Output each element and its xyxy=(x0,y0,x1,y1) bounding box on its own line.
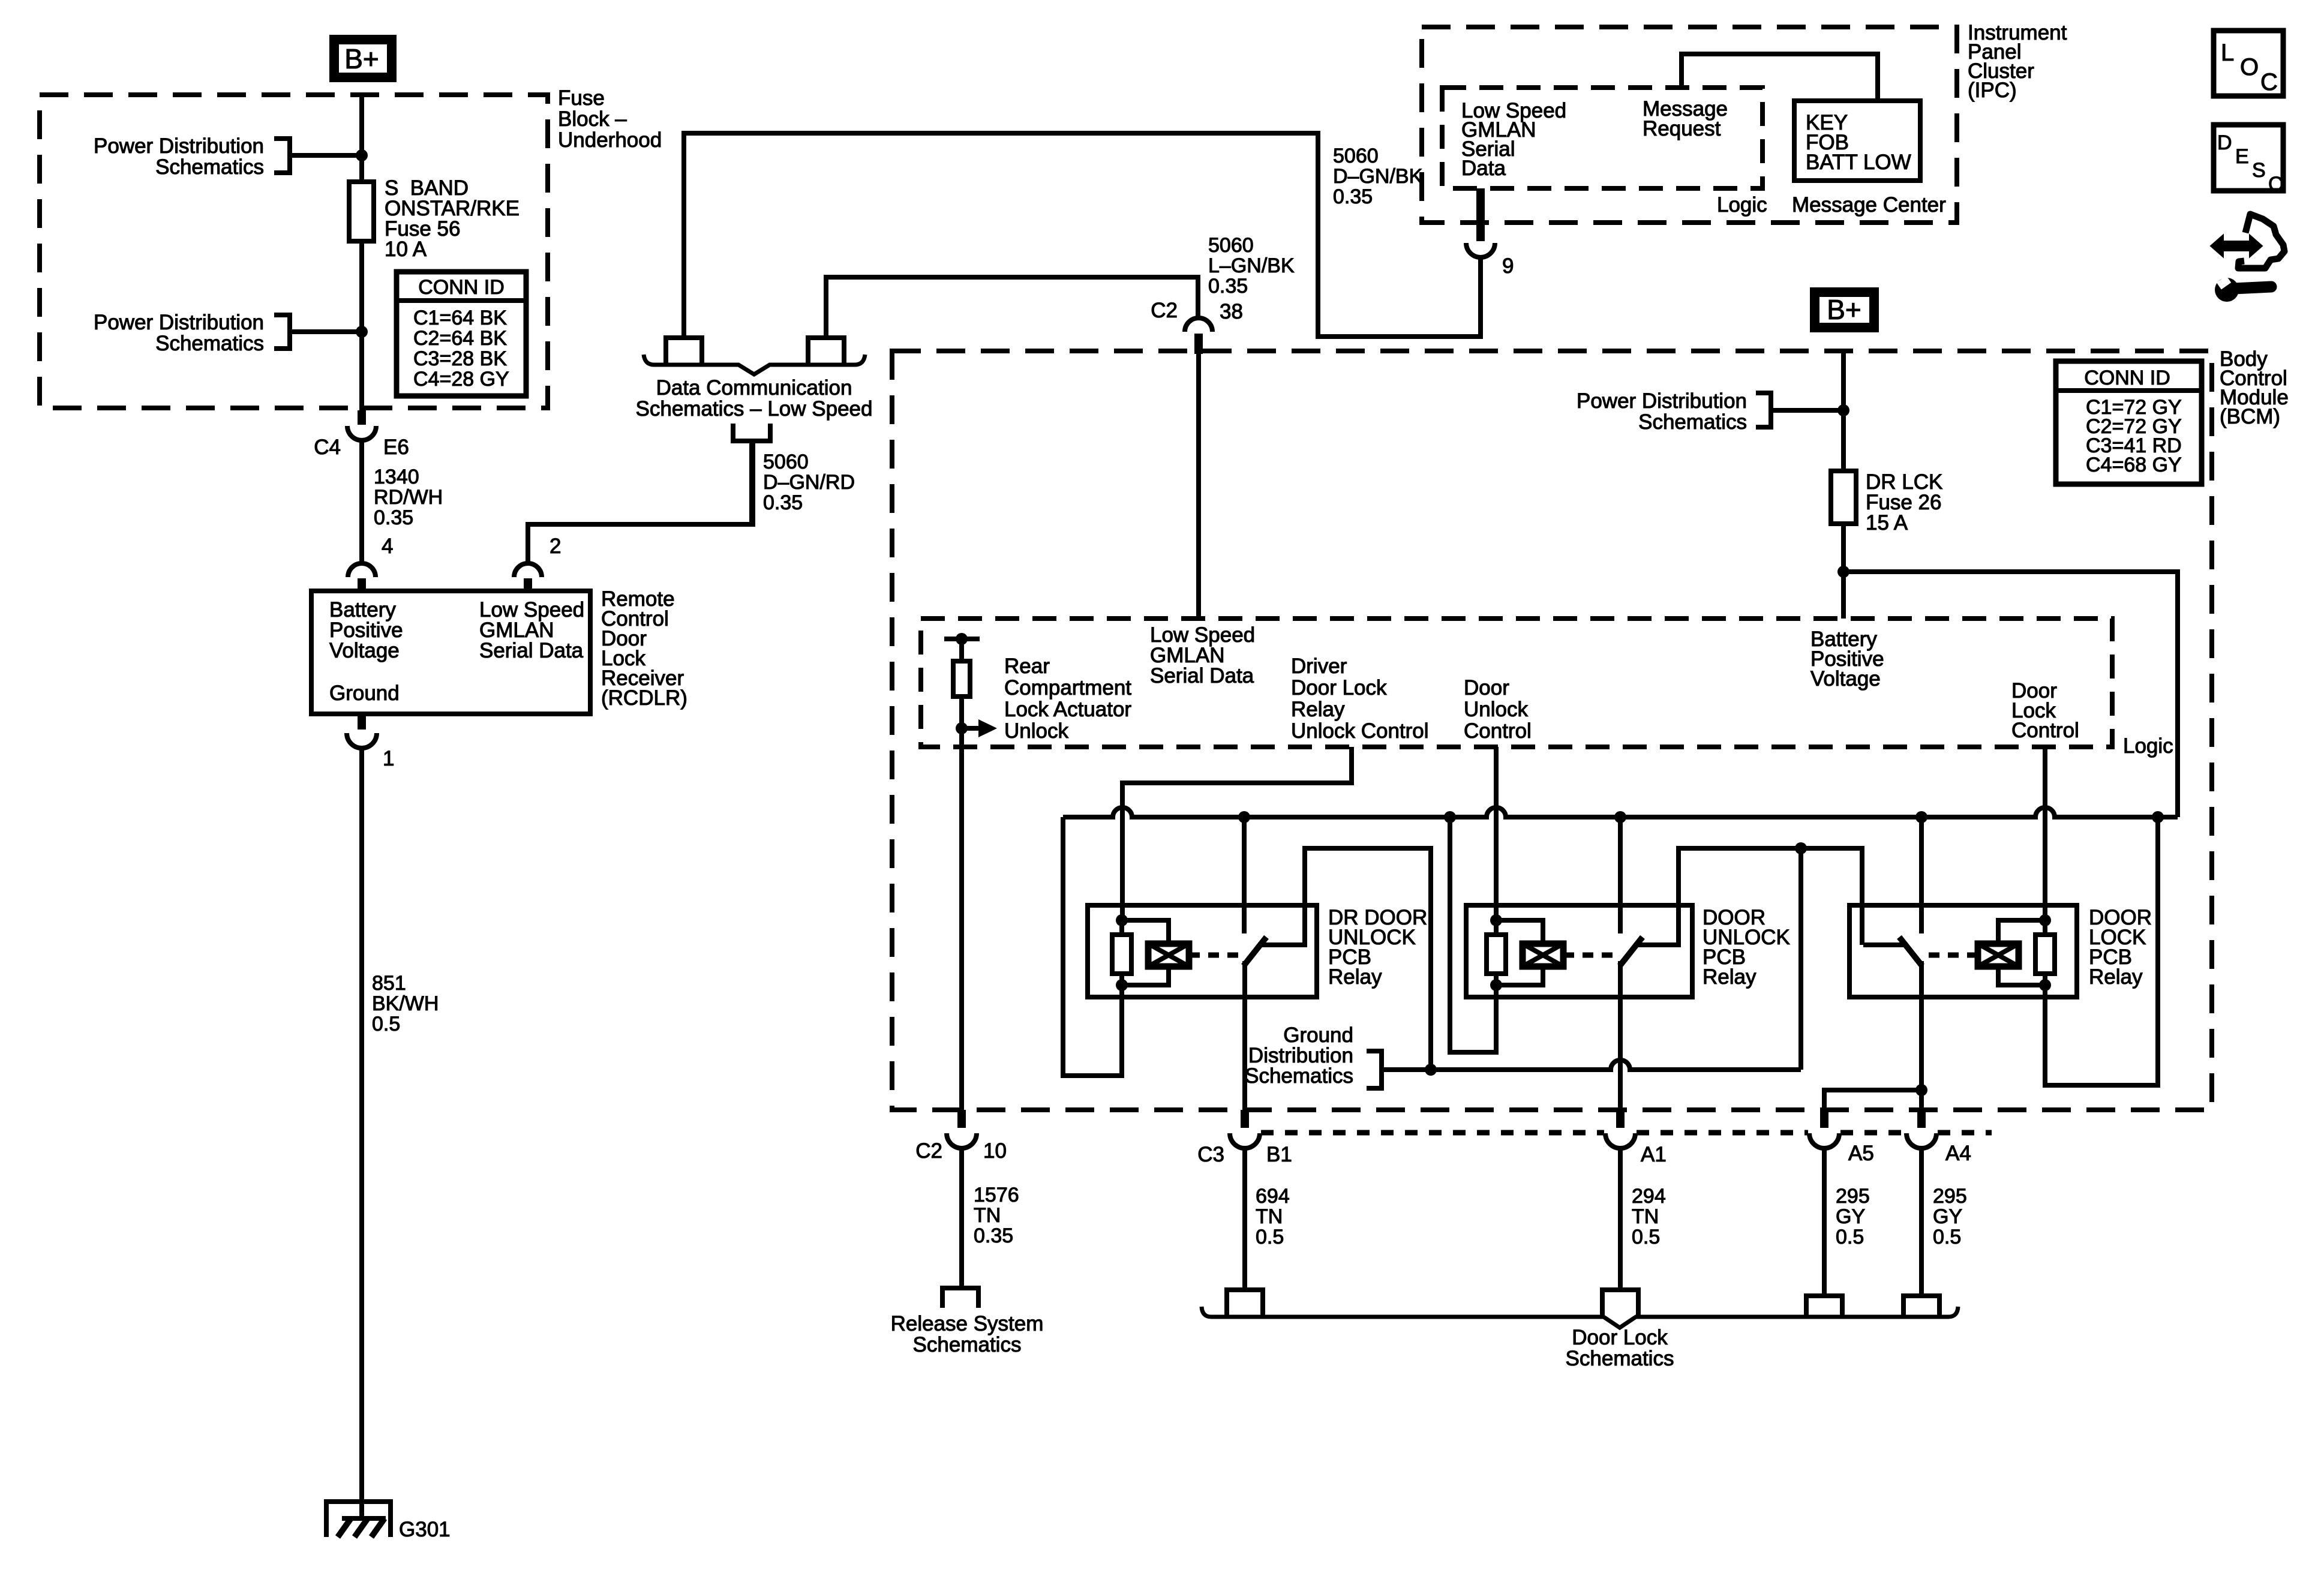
svg-text:0.5: 0.5 xyxy=(1933,1226,1961,1248)
svg-text:Release System: Release System xyxy=(891,1312,1044,1335)
wire 5060 D-GN/RD from data link to RCDLR pin 2 xyxy=(528,442,753,564)
svg-text:RD/WH: RD/WH xyxy=(374,486,443,509)
svg-text:L–GN/BK: L–GN/BK xyxy=(1208,254,1295,277)
wire bracket to main feed (lower) xyxy=(290,329,362,334)
wire relay K1 switch to connector B1 xyxy=(1242,961,1247,1117)
svg-text:15 A: 15 A xyxy=(1866,511,1908,535)
relay switch common riser from bus xyxy=(1242,817,1247,933)
svg-text:4: 4 xyxy=(382,535,393,558)
wire rear compartment unlock down to connector C2-10 xyxy=(959,728,964,1117)
fuse DR LCK Fuse 26 xyxy=(1831,471,1856,524)
CONN ID table (fuse block) xyxy=(397,272,526,396)
node junction to power distribution (upper) xyxy=(356,149,368,161)
wire 294 TN to door lock schematics xyxy=(1618,1148,1623,1290)
connector A1 xyxy=(1616,1110,1625,1128)
svg-text:Block –: Block – xyxy=(558,107,627,131)
svg-text:Data: Data xyxy=(1461,157,1506,180)
wire 851 BK/WH to ground G301 xyxy=(359,747,364,1520)
wire data link B (5060 L-GN/BK) staple to BCM C2-38 xyxy=(808,338,844,365)
bus junction dot relay K3 switch xyxy=(1915,811,1927,823)
B+ battery feed symbol (fuse block) xyxy=(334,40,392,77)
svg-text:851: 851 xyxy=(372,972,406,995)
svg-text:Underhood: Underhood xyxy=(558,128,662,152)
svg-text:L: L xyxy=(2221,40,2234,66)
relay supply bus B+ with crossover hops xyxy=(1063,807,2178,817)
relay K2 coil return loop to bus xyxy=(1450,817,1496,1052)
relay switch common riser from bus xyxy=(1618,817,1623,933)
wire 295 GY (A4) xyxy=(1919,1148,1924,1296)
svg-text:Serial Data: Serial Data xyxy=(479,639,584,662)
svg-text:Control: Control xyxy=(1464,719,1532,743)
connector pin 2 of RCDLR xyxy=(514,563,542,577)
svg-text:1340: 1340 xyxy=(374,466,419,488)
reference bracket power distribution schematics (upper) xyxy=(274,139,290,173)
svg-text:TN: TN xyxy=(1632,1205,1659,1228)
svg-text:Logic: Logic xyxy=(2123,734,2173,758)
IPC connector pin 9 xyxy=(1476,188,1485,241)
svg-text:Unlock: Unlock xyxy=(1464,698,1528,721)
junction dot unlock output xyxy=(956,722,968,734)
svg-text:TN: TN xyxy=(974,1204,1001,1227)
wire door unlock control to relay K2 coil xyxy=(1494,747,1499,920)
relay coil center wire xyxy=(1494,920,1499,985)
svg-text:295: 295 xyxy=(1836,1185,1870,1208)
svg-text:D–GN/RD: D–GN/RD xyxy=(763,471,855,494)
svg-text:0.5: 0.5 xyxy=(1632,1226,1660,1248)
svg-text:C1=64 BK: C1=64 BK xyxy=(413,307,507,329)
relay switch blade xyxy=(1899,937,1922,966)
wire from data brace tap down to RCDLR pin2 run xyxy=(749,441,754,524)
svg-text:10: 10 xyxy=(983,1139,1007,1163)
svg-text:Schematics: Schematics xyxy=(155,332,264,355)
svg-text:(IPC): (IPC) xyxy=(1968,79,2017,102)
relay mechanical link stub and dashes xyxy=(1563,953,1574,958)
tap connector below data brace xyxy=(733,424,770,441)
BCM logic dashed box xyxy=(921,619,2112,747)
svg-text:Door Lock: Door Lock xyxy=(1291,676,1387,700)
junction dot fuse output to relay bus xyxy=(1837,566,1849,578)
connector C2 pin 10 (rear compartment) xyxy=(957,1110,966,1128)
staple A4 to brace xyxy=(1903,1296,1939,1316)
svg-text:5060: 5060 xyxy=(1208,234,1254,257)
svg-text:S: S xyxy=(2252,159,2266,182)
connector A4 xyxy=(1917,1110,1926,1128)
svg-text:G301: G301 xyxy=(399,1518,451,1541)
svg-text:Relay: Relay xyxy=(2089,965,2143,989)
svg-text:Schematics: Schematics xyxy=(155,155,264,179)
wire driver door lock relay unlock control to relay K1 coil xyxy=(1122,747,1352,920)
connector staple release system xyxy=(942,1288,978,1308)
instrument panel cluster dashed box xyxy=(1422,27,1957,223)
svg-text:Ground: Ground xyxy=(329,682,400,705)
arrow unlock direction xyxy=(962,726,978,731)
svg-text:C: C xyxy=(2268,173,2283,196)
svg-text:Door Lock: Door Lock xyxy=(1572,1326,1668,1349)
relay K1 coil return loop to bus xyxy=(1063,817,1122,1076)
svg-text:Relay: Relay xyxy=(1328,965,1382,989)
node junction to power distribution (lower) xyxy=(356,326,368,338)
svg-text:0.35: 0.35 xyxy=(1333,185,1373,208)
svg-text:BK/WH: BK/WH xyxy=(372,992,439,1015)
wire 295 GY (A5) xyxy=(1822,1148,1827,1296)
svg-text:Unlock: Unlock xyxy=(1004,719,1068,743)
junction dot A5 jumper xyxy=(1915,1084,1927,1096)
relay coil loop wire xyxy=(1122,920,1169,985)
wire message request to message center xyxy=(1682,54,1878,100)
svg-text:0.5: 0.5 xyxy=(1836,1226,1864,1248)
connector C3 pin B1 xyxy=(1241,1110,1249,1128)
svg-text:C3=28 BK: C3=28 BK xyxy=(413,347,507,370)
relay mechanical link stub and dashes xyxy=(1967,953,1978,958)
ground distribution line with hop over A1 wire xyxy=(1382,1060,1801,1070)
DESC legend box xyxy=(2214,125,2283,191)
svg-text:A5: A5 xyxy=(1848,1142,1874,1165)
wire relay K2 switch to connector A1 xyxy=(1618,961,1623,1117)
relay coil resistor xyxy=(1487,935,1506,974)
svg-text:38: 38 xyxy=(1220,300,1243,323)
reference bracket ground distribution schematics xyxy=(1367,1051,1382,1088)
relay K3 coil return loop to bus xyxy=(2045,817,2158,1085)
svg-text:0.35: 0.35 xyxy=(763,491,803,514)
svg-text:B1: B1 xyxy=(1266,1143,1292,1166)
svg-text:Power Distribution: Power Distribution xyxy=(94,311,264,334)
pin 1 connector of RCDLR (ground) xyxy=(358,714,366,730)
wire data link A (5060 D-GN/BK) staple to IPC xyxy=(666,338,702,365)
fuse block - underhood dashed box xyxy=(40,95,548,408)
IPC logic inner dashed box xyxy=(1442,88,1762,188)
brace data communication schematics - low speed xyxy=(644,355,865,374)
svg-text:2: 2 xyxy=(550,535,561,558)
svg-text:Power Distribution: Power Distribution xyxy=(1577,389,1747,413)
relay coil resistor xyxy=(1112,935,1131,974)
relay coil resistor xyxy=(2035,935,2055,974)
relay coil inductor X-box xyxy=(1148,944,1189,966)
svg-text:GY: GY xyxy=(1836,1205,1865,1228)
ground symbol G301 xyxy=(326,1502,391,1537)
svg-text:GY: GY xyxy=(1933,1205,1962,1228)
connector C2 pin 38 into BCM xyxy=(1185,318,1212,332)
svg-text:C4: C4 xyxy=(314,436,341,459)
svg-text:B+: B+ xyxy=(1827,294,1861,325)
svg-text:Message Center: Message Center xyxy=(1792,193,1946,217)
svg-text:Request: Request xyxy=(1643,117,1721,140)
svg-text:A4: A4 xyxy=(1945,1142,1971,1165)
svg-text:Driver: Driver xyxy=(1291,655,1347,678)
B+ battery feed symbol (BCM) xyxy=(1815,292,1874,328)
svg-text:Schematics: Schematics xyxy=(1638,410,1747,434)
svg-text:Compartment: Compartment xyxy=(1004,676,1131,700)
CONN ID table (BCM) xyxy=(2056,361,2202,484)
svg-text:Schematics: Schematics xyxy=(1245,1064,1353,1088)
relay coil top junction xyxy=(1116,914,1128,926)
svg-text:D: D xyxy=(2217,131,2232,154)
rear compartment lock actuator terminal bar xyxy=(944,637,980,641)
svg-text:TN: TN xyxy=(1256,1205,1283,1228)
wire 1576 TN to release system xyxy=(959,1148,964,1288)
svg-text:10 A: 10 A xyxy=(385,238,427,261)
jumper wire to connector A5 xyxy=(1824,1090,1921,1117)
svg-text:0.5: 0.5 xyxy=(372,1013,400,1035)
connector pin 4 of RCDLR xyxy=(348,563,376,577)
svg-text:Schematics – Low Speed: Schematics – Low Speed xyxy=(636,397,873,421)
wire 1340 RD/WH to RCDLR pin 4 xyxy=(359,440,364,564)
svg-text:1: 1 xyxy=(383,747,394,770)
bus junction dot relay K2 switch xyxy=(1614,811,1626,823)
svg-text:5060: 5060 xyxy=(763,451,809,473)
staple A1 to brace xyxy=(1602,1290,1638,1316)
svg-text:Power Distribution: Power Distribution xyxy=(94,134,264,158)
svg-text:Serial Data: Serial Data xyxy=(1150,664,1254,688)
svg-text:694: 694 xyxy=(1256,1185,1290,1208)
svg-text:C4=28 GY: C4=28 GY xyxy=(413,368,509,391)
relay coil center wire xyxy=(1119,920,1124,985)
svg-text:295: 295 xyxy=(1933,1185,1967,1208)
svg-text:(RCDLR): (RCDLR) xyxy=(601,686,687,710)
junction dot ground riser on output line xyxy=(1795,842,1807,854)
brace door lock schematics xyxy=(1202,1307,1958,1328)
svg-text:BATT LOW: BATT LOW xyxy=(1806,151,1911,174)
wire resistor to unlock node xyxy=(959,697,964,728)
svg-text:O: O xyxy=(2240,54,2259,80)
staple B1 to brace xyxy=(1227,1290,1263,1316)
wire B+ down to logic (battery positive voltage) xyxy=(1841,349,1846,619)
svg-text:Fuse: Fuse xyxy=(558,86,605,110)
relay switch throw contact xyxy=(1634,942,1679,947)
svg-text:0.35: 0.35 xyxy=(974,1224,1013,1247)
svg-text:C2=64 BK: C2=64 BK xyxy=(413,327,507,350)
svg-text:Schematics: Schematics xyxy=(1566,1347,1674,1370)
svg-text:C3: C3 xyxy=(1197,1143,1224,1166)
relay coil bottom junction xyxy=(2039,979,2051,991)
bus junction dot relay K3 coil return xyxy=(2152,811,2164,823)
svg-text:0.35: 0.35 xyxy=(1208,275,1248,298)
relay K2 switch output riser loop xyxy=(1634,848,1862,945)
svg-text:A1: A1 xyxy=(1641,1143,1667,1166)
svg-text:(BCM): (BCM) xyxy=(2220,405,2280,428)
wire door lock control to relay K3 coil xyxy=(2043,747,2047,920)
fuse F56 S BAND ONSTAR/RKE xyxy=(349,182,374,241)
relay switch blade xyxy=(1620,937,1643,966)
RCDLR module box xyxy=(311,591,590,714)
relay coil center wire xyxy=(2043,920,2047,985)
svg-text:Relay: Relay xyxy=(1703,965,1756,989)
connector A5 xyxy=(1820,1110,1828,1128)
wire bracket to B+ feed xyxy=(1771,408,1843,413)
wire pin 38 down to logic xyxy=(1196,353,1201,619)
svg-text:Voltage: Voltage xyxy=(329,639,400,662)
svg-text:Logic: Logic xyxy=(1717,193,1767,217)
reference bracket power distribution schematics (lower) xyxy=(274,315,290,349)
svg-text:1576: 1576 xyxy=(974,1184,1019,1206)
svg-text:Relay: Relay xyxy=(1291,698,1345,721)
svg-text:Schematics: Schematics xyxy=(913,1333,1022,1356)
relay switch common riser from bus xyxy=(1919,817,1924,933)
connector C4 pin E6 (fuse block bottom) xyxy=(358,410,366,425)
wire fuse 26 output to relay supply bus xyxy=(1843,572,2178,817)
resistor rear compartment lock actuator driver xyxy=(959,639,964,661)
relay K1 switch output riser loop xyxy=(1258,848,1431,1070)
junction dot power distribution xyxy=(1837,404,1849,416)
staple A5 to brace xyxy=(1806,1296,1842,1316)
BCM bottom connector row dotted line xyxy=(1261,1130,1992,1136)
LOC legend box xyxy=(2214,31,2283,96)
svg-text:5060: 5060 xyxy=(1333,145,1379,167)
svg-text:D–GN/BK: D–GN/BK xyxy=(1333,165,1423,188)
svg-text:C2: C2 xyxy=(1151,299,1178,322)
relay coil top junction xyxy=(2039,914,2051,926)
svg-text:E6: E6 xyxy=(383,436,409,459)
vehicle service icon (car outline, double arrow, wrench) xyxy=(2238,214,2284,268)
relay K3 DOOR LOCK PCB relay box xyxy=(1849,905,2077,997)
svg-text:C: C xyxy=(2260,69,2278,95)
bus junction dot relay K2 coil return xyxy=(1444,811,1456,823)
reference bracket power distribution schematics (BCM) xyxy=(1756,393,1771,427)
svg-text:Lock Actuator: Lock Actuator xyxy=(1004,698,1131,721)
wire B+ down through fuse 56 to connector C4 xyxy=(359,93,364,425)
svg-text:CONN ID: CONN ID xyxy=(2084,367,2170,389)
relay coil inductor X-box xyxy=(1978,944,2019,966)
relay switch blade xyxy=(1244,937,1266,966)
junction dot relay K1 output on ground line xyxy=(1425,1064,1437,1076)
bus junction dot relay K1 switch xyxy=(1238,811,1250,823)
body control module dashed box xyxy=(892,351,2212,1110)
svg-text:E: E xyxy=(2235,145,2249,168)
svg-text:Control: Control xyxy=(2011,719,2079,742)
wire 694 TN to door lock schematics xyxy=(1242,1148,1247,1290)
relay K2 DOOR UNLOCK PCB relay box xyxy=(1466,905,1692,997)
relay coil top junction xyxy=(1490,914,1502,926)
svg-text:Rear: Rear xyxy=(1004,655,1050,678)
junction dot rear compartment feed xyxy=(956,633,968,645)
wire relay K3 switch to connectors A5/A4 xyxy=(1919,961,1924,1117)
relay coil loop wire xyxy=(1496,920,1543,985)
svg-text:C2: C2 xyxy=(915,1139,942,1163)
svg-text:Unlock Control: Unlock Control xyxy=(1291,719,1429,743)
wire bracket to main feed (upper) xyxy=(290,153,362,158)
relay coil bottom junction xyxy=(1490,979,1502,991)
svg-text:294: 294 xyxy=(1632,1185,1666,1208)
svg-text:CONN ID: CONN ID xyxy=(418,276,505,299)
svg-text:B+: B+ xyxy=(344,43,379,74)
svg-text:0.35: 0.35 xyxy=(374,506,413,529)
svg-text:9: 9 xyxy=(1502,254,1514,278)
relay coil bottom junction xyxy=(1116,979,1128,991)
svg-text:C4=68 GY: C4=68 GY xyxy=(2086,454,2182,476)
relay coil inductor X-box xyxy=(1523,944,1563,966)
svg-text:0.5: 0.5 xyxy=(1256,1226,1284,1248)
relay coil loop wire xyxy=(1998,920,2045,985)
relay K1 DR DOOR UNLOCK PCB relay box xyxy=(1088,905,1317,997)
relay mechanical link stub and dashes xyxy=(1189,953,1200,958)
relay switch throw contact xyxy=(1863,942,1908,947)
svg-text:Door: Door xyxy=(1464,676,1509,700)
relay switch throw contact xyxy=(1258,942,1302,947)
ground riser from output line down to ground distribution line xyxy=(1798,848,1803,1070)
message center KEY FOB BATT LOW box xyxy=(1794,101,1920,181)
svg-text:Voltage: Voltage xyxy=(1810,667,1881,691)
svg-text:Data Communication: Data Communication xyxy=(656,376,852,400)
